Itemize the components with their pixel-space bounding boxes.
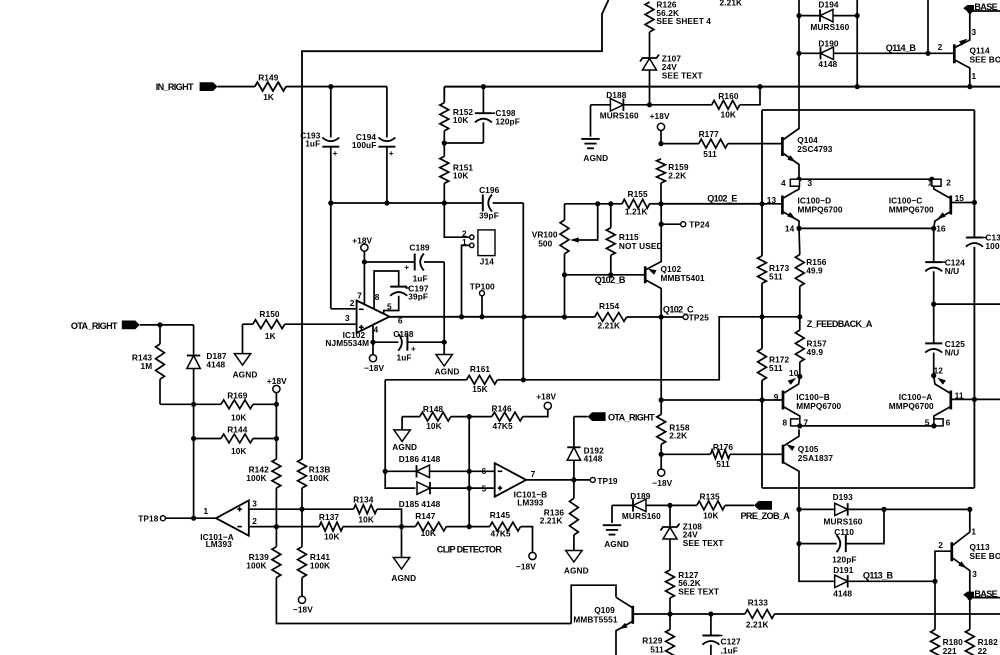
junction R144 right [274,436,279,441]
svg-text:10K: 10K [721,110,737,120]
svg-text:R147: R147 [415,511,436,521]
svg-text:5: 5 [482,483,487,493]
wire C189 to C188 node [443,262,445,342]
resistor R149 [255,73,286,102]
wire pin14 to pin16 [799,227,934,229]
diode D190 [799,39,928,69]
svg-text:D190: D190 [818,39,839,49]
svg-text:D193: D193 [833,492,854,502]
transistor IC100-B [774,368,842,419]
junction R152-C198 [442,140,447,145]
junction IC100-A base [972,397,977,402]
resistor R133 [745,597,775,629]
junction Q114 col at bus [967,84,972,89]
wire bus to C194 [331,86,387,88]
junction J14 pin1 at output [459,314,464,319]
diode D194 [799,0,857,32]
wire Q113_B col down [934,581,936,629]
svg-text:500: 500 [538,239,552,249]
svg-text:10K: 10K [324,532,340,542]
zener Z108 [661,505,724,570]
svg-text:NJM5534M: NJM5534M [325,338,369,348]
junction IC100-B base [759,397,764,402]
svg-text:+: + [333,148,338,158]
wire R149 to C193 node [286,86,331,88]
diode D189 [612,491,670,521]
svg-text:2.21K: 2.21K [720,0,743,7]
wire mid bus [331,202,483,204]
svg-text:2: 2 [252,516,257,526]
resistor R143 [132,325,165,404]
capacitor C188 [373,329,444,363]
svg-text:4: 4 [374,325,379,335]
capacitor C194 [352,87,396,203]
svg-text:2.21K: 2.21K [746,620,769,630]
wire Q114_B up [927,0,929,53]
wire bus to R152 [443,87,445,103]
resistor R158 [657,400,690,454]
svg-text:3: 3 [972,27,977,37]
wire R139 to bottom rail [276,578,571,624]
junction C194 bottom [384,200,389,205]
wire frame right lower [973,247,975,488]
net tag BASE bottom [963,589,1000,600]
svg-text:120pF: 120pF [495,117,519,127]
diode D187 [187,325,227,404]
svg-text:R133: R133 [748,597,769,607]
label Z_FEEDBACK_A [807,319,873,329]
svg-text:1: 1 [204,506,209,516]
wire +18V column down [275,404,277,459]
net tag OTA_RIGHT output [574,412,655,422]
junction divider top [467,414,472,419]
svg-text:R177: R177 [699,129,720,139]
svg-text:MMPQ6700: MMPQ6700 [889,204,934,214]
svg-text:D189: D189 [630,491,651,501]
svg-text:511: 511 [650,644,664,654]
svg-text:R144: R144 [227,425,248,435]
junction D186 left [383,469,388,474]
svg-text:4148: 4148 [833,589,852,599]
svg-text:MMBT5401: MMBT5401 [661,273,705,283]
testpoint TP24 [659,220,710,230]
junction IC100-A collector [931,423,936,428]
svg-text:R137: R137 [319,512,340,522]
junction Q102_C [659,314,664,319]
net tag BASE top [963,2,1000,37]
svg-text:14: 14 [785,223,795,233]
svg-text:LM393: LM393 [206,539,233,549]
capacitor C193 [300,87,339,203]
label Q114_B [886,43,917,53]
svg-text:MURS160: MURS160 [810,22,849,32]
svg-text:AGND: AGND [564,565,589,575]
wire R177 line [661,143,782,145]
svg-text:TP100: TP100 [470,281,495,291]
wire R144 line [194,438,277,440]
svg-text:R146: R146 [492,404,513,414]
svg-text:511: 511 [769,363,783,373]
svg-text:R150: R150 [259,309,280,319]
junction R158 top [659,397,664,402]
svg-text:+: + [389,148,394,158]
wire R176 line [661,453,783,455]
wire frame left mid [761,283,763,348]
svg-text:100K: 100K [246,473,266,483]
capacitor C127 [702,614,741,655]
svg-text:10K: 10K [421,528,437,538]
wire IC100-B base line [661,399,783,401]
capacitor C196 [479,185,523,221]
svg-text:OTA_RIGHT: OTA_RIGHT [608,413,655,423]
pin link 5-6 IC100-A [925,417,951,427]
svg-text:MURS160: MURS160 [622,511,661,521]
svg-text:C189: C189 [409,243,430,253]
capacitor C197 comp loop [374,271,429,314]
junction Z_FEEDBACK at R173 [759,314,764,319]
junction C124 bottom rail [931,302,936,307]
junction VR100 at Q102_B [562,272,567,277]
junction IC100-C emitter [931,226,936,231]
resistor R144 [221,425,253,456]
resistor R145 [490,510,521,538]
diode D191 [799,544,935,599]
resistor R180 [931,630,964,655]
resistor R136 [540,480,579,551]
transistor IC100-A [889,376,975,419]
junction R115 at Q102_B [608,272,613,277]
svg-text:TP24: TP24 [689,220,710,230]
wire IC102 pin4 [372,324,374,342]
svg-text:7: 7 [804,417,809,427]
svg-text:−18V: −18V [652,478,672,488]
svg-text:.1uF: .1uF [721,645,738,655]
svg-text:D186 4148: D186 4148 [399,454,441,464]
svg-text:1: 1 [928,178,933,188]
wire frame left low [761,381,763,489]
wire R161 to Z feedback [497,317,799,380]
svg-text:1: 1 [972,71,977,81]
wire R142 col mid [275,488,277,547]
wire Q102_B line [565,275,646,285]
wire IC100-A base out [974,398,1000,400]
junction R160 at bus [757,84,762,89]
svg-text:AGND: AGND [604,539,629,549]
svg-text:100uF: 100uF [352,140,376,150]
resistor R182 [965,598,998,655]
svg-text:SEE TEXT: SEE TEXT [683,538,724,548]
power +18V at R169 [267,376,287,404]
ground AGND under R150 [233,324,258,379]
svg-text:1uF: 1uF [397,353,412,363]
junction VR100 wiper top [595,201,600,206]
svg-text:N/U: N/U [945,348,960,358]
wire R152 bottom to C198 bottom [444,131,483,157]
svg-text:1.21K: 1.21K [625,207,648,217]
power -18V at IC102 [364,342,384,373]
wire R160 to bus [740,87,760,105]
svg-text:C188: C188 [393,329,414,339]
junction D194 left [796,13,801,18]
svg-text:15K: 15K [472,384,488,394]
transistor Q102 [645,259,705,293]
pin 14 IC100-D [785,223,795,233]
svg-text:1uF: 1uF [305,139,320,149]
svg-text:100K: 100K [310,561,330,571]
svg-text:TP18: TP18 [138,514,159,524]
junction fb vertical at R161 line [521,377,526,382]
junction PRE_ZOB node [796,507,801,512]
svg-text:1M: 1M [141,361,153,371]
resistor R148 [402,404,451,431]
resistor R139 [246,547,280,578]
wire Q102 emitter up [660,204,662,259]
junction R145 left [467,524,472,529]
svg-text:11: 11 [955,390,964,400]
svg-text:221: 221 [943,646,957,655]
svg-text:C110: C110 [834,527,854,537]
svg-text:R134: R134 [353,494,374,504]
junction IC100-B emitter [797,374,802,379]
diode D192 [567,417,604,480]
resistor R127 [666,570,720,614]
svg-text:TP25: TP25 [689,312,710,322]
svg-text:R169: R169 [227,390,248,400]
svg-text:D188: D188 [606,90,627,100]
ground AGND at R148 [392,417,417,452]
svg-text:+: + [411,344,416,354]
wire divider vertical [468,417,470,527]
svg-text:Q114_B: Q114_B [886,43,917,53]
ground AGND under clip node [391,527,416,583]
junction C193 top [328,84,333,89]
svg-text:R148: R148 [423,404,444,414]
svg-text:R161: R161 [470,364,491,374]
svg-text:MMPQ6700: MMPQ6700 [798,204,843,214]
junction C188-C189 node [442,340,447,345]
ground AGND at D189 [603,505,629,549]
label Q102_C [663,304,694,314]
svg-text:2.2K: 2.2K [668,170,686,180]
resistor R159 [657,159,689,204]
wire Q102_C to R158 [660,317,662,400]
svg-text:2SC4793: 2SC4793 [797,144,833,154]
svg-text:4148: 4148 [206,360,225,370]
svg-text:AGND: AGND [583,153,608,163]
resistor R134 [353,494,377,524]
svg-text:6: 6 [946,417,951,427]
wire R134 to AGND node [377,509,402,526]
wire R147 to R145 [446,526,489,528]
wire Q104 collector to diodes [798,16,800,124]
svg-text:BASE: BASE [974,2,997,12]
svg-text:−18V: −18V [293,605,313,615]
svg-text:10K: 10K [703,510,719,520]
capacitor C134 [966,233,1000,251]
svg-text:511: 511 [703,149,717,159]
transistor Q114 [954,27,1000,87]
svg-text:1: 1 [971,526,976,536]
label CLIP DETECTOR [437,544,503,554]
svg-text:MMPQ6700: MMPQ6700 [796,401,841,411]
junction IC100-B collector [797,423,802,428]
resistor R142 [246,459,280,488]
junction TP18 line [191,516,196,521]
pin 12 IC100-A [934,366,944,376]
svg-text:10K: 10K [453,171,469,181]
svg-text:R145: R145 [490,510,511,520]
diode D188 [591,90,712,121]
svg-text:10K: 10K [231,446,247,456]
svg-text:AGND: AGND [391,573,416,583]
svg-text:511: 511 [769,271,783,281]
junction R144 left [191,436,196,441]
potentiometer VR100 [532,204,598,317]
svg-text:R135: R135 [700,492,721,502]
svg-text:15: 15 [955,193,965,203]
junction D194 right [855,13,860,18]
testpoint TP25 [683,312,709,322]
transistor IC100-C [889,186,975,233]
pin link 8-7 IC100-B [783,417,809,427]
svg-text:3: 3 [345,313,350,323]
wire mid bus to J14 pin2 [444,203,469,237]
power +18V at R146 [523,392,557,417]
svg-text:SEE TEXT: SEE TEXT [678,587,719,597]
svg-text:OTA_RIGHT: OTA_RIGHT [71,321,118,331]
svg-text:MMPQ6700: MMPQ6700 [889,401,934,411]
svg-text:100K: 100K [309,473,329,483]
junction Q113_B [932,579,937,584]
svg-text:J14: J14 [480,256,494,266]
junction IC102 pin7 supply [362,259,367,304]
svg-text:6: 6 [482,466,487,476]
svg-text:−18V: −18V [516,562,536,572]
svg-text:49.9: 49.9 [806,266,823,276]
op-amp IC101-A [200,499,257,549]
svg-text:7: 7 [531,469,536,479]
wire C196 right down to output node [522,203,524,380]
junction Q113 collector node [967,507,972,512]
pin link 4-3 Q104 [781,178,813,188]
wire IC101-A pin2 line [249,526,319,528]
svg-text:5: 5 [387,302,392,312]
svg-text:N/U: N/U [945,266,960,276]
junction R177 left [658,141,663,146]
svg-text:2: 2 [938,42,943,52]
power -18V at R145 [516,527,536,572]
wire -18V rail top frame [302,0,609,459]
junction R115 top [608,201,613,206]
wire D194 col [856,0,858,87]
svg-text:1uF: 1uF [413,274,428,284]
junction IC100-C collector node [929,177,934,182]
resistor R156 [795,228,826,316]
resistor R169 [221,390,253,422]
resistor R161 [385,364,497,394]
svg-text:7: 7 [357,290,362,300]
junction Z_FEEDBACK at R156 [797,314,802,319]
net tag OTA_RIGHT input [71,321,140,331]
svg-text:22: 22 [978,646,988,655]
resistor R129 [642,614,674,655]
svg-text:+: + [404,262,409,272]
wire pin3 to pin2 link [799,178,932,180]
junction divider at pin5 [467,486,472,491]
junction IC100-A emitter [931,373,936,378]
wire fb to D186 [385,380,415,488]
pin 13 IC100-D [762,195,782,205]
svg-text:2: 2 [938,540,943,550]
junction Q102_E at frame [759,201,764,206]
svg-text:3: 3 [972,569,977,579]
wire D194 col top [798,0,800,16]
zener Z107 [640,32,703,105]
junction output-C196 vertical [521,314,526,319]
wire R154 line [565,316,683,318]
wire IC101-A pin3 line [249,508,354,510]
svg-text:10K: 10K [231,412,247,422]
svg-text:TP19: TP19 [597,476,618,486]
junction Q109 base node [667,611,672,616]
svg-text:1K: 1K [263,92,274,102]
svg-text:4: 4 [781,178,786,188]
resistor R173 [758,256,790,284]
svg-text:120pF: 120pF [832,554,856,564]
svg-text:2.2K: 2.2K [669,431,687,441]
svg-text:39pF: 39pF [479,211,499,221]
junction D193 right [881,507,886,512]
wire R155 line [565,203,763,205]
svg-text:2.21K: 2.21K [598,321,621,331]
junction Z107 at D188 line [647,102,652,107]
svg-text:8: 8 [375,292,380,302]
diode D185 [399,482,495,509]
wire J14 pin1 to output node [462,245,470,316]
svg-text:+18V: +18V [536,392,556,402]
svg-text:8: 8 [783,417,788,427]
svg-text:16: 16 [936,223,946,233]
junction Z108 top [667,503,672,508]
power +18V at IC102 [352,235,372,262]
power -18V at R158 [652,454,672,488]
svg-text:AGND: AGND [435,366,460,376]
net tag PRE_ZOB_A [725,501,790,521]
resistor R154 [595,301,627,330]
junction R169 right [274,402,279,407]
svg-text:511: 511 [716,459,730,469]
resistor R151 [440,156,474,183]
wire bus R152-C198 segment [444,86,1000,88]
junction output TP19 node [571,477,576,482]
svg-text:R154: R154 [599,301,620,311]
svg-text:NOT USED: NOT USED [619,241,663,251]
junction D190 left [796,51,801,56]
svg-text:4148: 4148 [818,59,837,69]
diode D193 [799,492,970,527]
junction C193 bottom [328,200,333,205]
resistor R177 [699,129,728,159]
testpoint TP18 [138,514,216,524]
svg-text:39pF: 39pF [408,291,428,301]
junction clip input node [399,524,404,529]
capacitor C110 [799,509,884,564]
junction IC102 pin4 node [370,340,375,345]
wire mid right rail [934,303,1000,305]
power +18V at R159 [650,111,670,143]
wire frame right upper [973,110,975,238]
ground AGND at D188 [581,105,608,163]
